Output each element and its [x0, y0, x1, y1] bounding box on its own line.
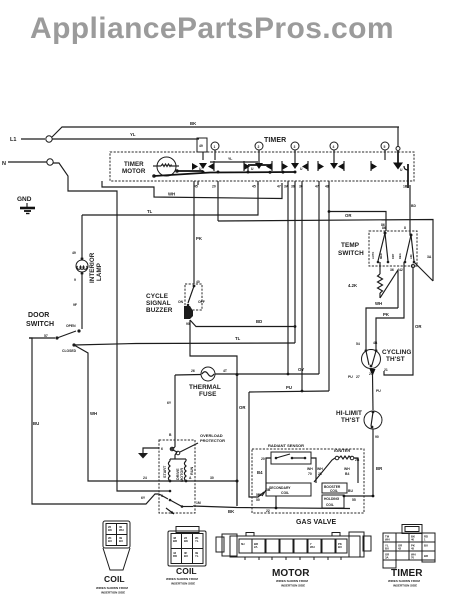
- timer contact cluster E: [371, 161, 408, 188]
- node L1: [10, 136, 52, 143]
- start winding: [163, 459, 186, 481]
- svg-text:AppliancePartsPros.com: AppliancePartsPros.com: [30, 12, 394, 45]
- svg-text:SWITCH: SWITCH: [26, 321, 54, 328]
- svg-text:COIL: COIL: [176, 566, 197, 576]
- under-timer stub 48: [325, 181, 329, 391]
- under-timer stub 45b: [252, 181, 258, 189]
- svg-text:A: A: [189, 476, 192, 480]
- svg-text:WIRES SHOWN FROM: WIRES SHOWN FROM: [166, 577, 198, 581]
- svg-text:INSERTION SIDE: INSERTION SIDE: [393, 584, 417, 588]
- svg-text:SWITCH: SWITCH: [338, 250, 364, 257]
- svg-text:OR: OR: [239, 405, 246, 410]
- svg-text:WIRES SHOWN FROM: WIRES SHOWN FROM: [276, 579, 308, 583]
- wire PK to buzzer: [194, 181, 203, 284]
- timer contact cluster A: [192, 161, 220, 174]
- thermal fuse: [175, 367, 319, 381]
- svg-text:50: 50: [256, 498, 260, 502]
- svg-text:B4: B4: [345, 472, 349, 476]
- wire WH from timer motor: [102, 181, 282, 199]
- svg-text:B4: B4: [257, 470, 263, 475]
- igniter: [314, 456, 360, 483]
- svg-text:3A: 3A: [427, 255, 432, 259]
- connector coil 1: [96, 521, 130, 595]
- svg-text:INSERTION SIDE: INSERTION SIDE: [171, 582, 195, 586]
- wire OR upper: [218, 213, 433, 281]
- svg-text:COIL: COIL: [281, 491, 289, 495]
- svg-text:56: 56: [256, 493, 260, 497]
- svg-text:6H: 6H: [241, 542, 245, 546]
- under-timer stub 47b: [315, 181, 319, 374]
- svg-text:4T: 4T: [223, 369, 228, 373]
- svg-text:CYCLE: CYCLE: [146, 293, 169, 300]
- svg-text:WH: WH: [385, 538, 390, 542]
- svg-text:5: 5: [384, 145, 386, 149]
- svg-text:48: 48: [325, 185, 329, 189]
- svg-text:TH'ST: TH'ST: [341, 417, 360, 424]
- timer cam 4: [330, 142, 338, 150]
- svg-text:U: U: [300, 167, 303, 171]
- svg-text:START: START: [163, 465, 167, 478]
- timer terminal 49 bump: [197, 138, 207, 152]
- secondary coil: [256, 483, 311, 502]
- svg-text:BU: BU: [338, 545, 342, 549]
- svg-text:WH: WH: [168, 192, 175, 197]
- svg-text:MOTOR: MOTOR: [180, 468, 184, 482]
- svg-text:ON: ON: [178, 300, 184, 304]
- cycling thermostat: [348, 341, 388, 410]
- timer motor: [152, 157, 179, 178]
- svg-text:8: 8: [404, 226, 406, 230]
- svg-text:COIL: COIL: [326, 503, 334, 507]
- svg-text:49: 49: [72, 251, 76, 255]
- run winding: [184, 459, 194, 481]
- svg-text:PK: PK: [196, 236, 203, 241]
- svg-text:WH: WH: [119, 528, 124, 532]
- ground at motor: [138, 447, 163, 459]
- temp switch contacts: [371, 226, 415, 263]
- motor assembly box: [159, 440, 195, 513]
- under-timer stub 45: [194, 181, 198, 189]
- centrifugal switch: [159, 490, 201, 514]
- svg-text:42: 42: [398, 547, 402, 551]
- svg-text:BU: BU: [385, 547, 389, 551]
- wire BD from buzzer: [190, 319, 295, 327]
- svg-text:WH: WH: [375, 301, 382, 306]
- svg-text:WH: WH: [344, 467, 350, 471]
- svg-text:BU: BU: [348, 489, 353, 493]
- under-timer stub 20: [212, 181, 218, 221]
- svg-text:1B: 1B: [403, 185, 408, 189]
- connector coil 2: [166, 527, 206, 586]
- wire WH temp: [366, 301, 398, 349]
- wire 3A diagonal: [414, 255, 433, 281]
- svg-text:55: 55: [352, 498, 356, 502]
- svg-text:BU: BU: [33, 421, 39, 426]
- timer cam 2: [255, 142, 263, 150]
- svg-text:20: 20: [261, 457, 265, 461]
- wire buzzer to OR vertical: [190, 320, 246, 506]
- svg-text:U: U: [251, 167, 254, 171]
- svg-text:30: 30: [210, 476, 214, 480]
- svg-text:9F: 9F: [73, 303, 77, 307]
- svg-text:OR: OR: [345, 213, 352, 218]
- wire 30 from motor: [195, 476, 237, 506]
- svg-text:OFF: OFF: [198, 300, 205, 304]
- svg-text:47: 47: [277, 185, 281, 189]
- svg-text:YL: YL: [130, 132, 136, 137]
- wire BU from door switch common: [29, 338, 159, 504]
- under-timer stub 4B: [403, 185, 416, 236]
- wire TL long: [82, 183, 258, 215]
- svg-text:BU: BU: [424, 544, 428, 548]
- ground GND: [17, 196, 35, 214]
- hi-limit thermostat: [364, 411, 383, 495]
- svg-text:70: 70: [308, 472, 312, 476]
- svg-text:L1: L1: [10, 137, 16, 143]
- svg-text:CYCLING: CYCLING: [382, 349, 411, 356]
- svg-text:AIR: AIR: [409, 254, 413, 259]
- svg-text:GND: GND: [17, 196, 32, 203]
- svg-text:YL: YL: [228, 157, 232, 161]
- timer contact cluster B: [244, 161, 272, 174]
- wire BK top: [52, 121, 400, 151]
- svg-text:20: 20: [212, 185, 216, 189]
- svg-text:WH: WH: [90, 411, 97, 416]
- wire from door switch closed: [74, 345, 159, 481]
- svg-text:INSERTION SIDE: INSERTION SIDE: [101, 591, 125, 595]
- wire to cycling 21: [384, 264, 422, 375]
- svg-text:PU: PU: [286, 385, 292, 390]
- svg-text:9: 9: [74, 278, 76, 282]
- svg-text:DRY: DRY: [391, 253, 395, 259]
- svg-text:WH: WH: [307, 467, 313, 471]
- svg-text:SIGNAL: SIGNAL: [146, 300, 171, 307]
- svg-text:26: 26: [191, 369, 195, 373]
- svg-text:REG: REG: [398, 253, 402, 259]
- svg-text:TIMER: TIMER: [264, 137, 286, 144]
- svg-text:BUZZER: BUZZER: [146, 307, 173, 314]
- svg-text:36: 36: [390, 268, 394, 272]
- svg-text:6Y: 6Y: [167, 401, 172, 405]
- wire PU: [249, 385, 329, 497]
- connector timer: [383, 525, 435, 588]
- svg-text:COIL: COIL: [330, 489, 338, 493]
- svg-text:MOTOR: MOTOR: [272, 568, 310, 579]
- svg-text:24: 24: [143, 476, 147, 480]
- svg-text:TIMER: TIMER: [124, 161, 144, 168]
- svg-text:U: U: [400, 168, 403, 172]
- under-timer stub 47: [277, 185, 281, 189]
- svg-text:THERMAL: THERMAL: [189, 384, 221, 391]
- svg-text:MOTOR: MOTOR: [122, 168, 146, 175]
- svg-text:BU: BU: [184, 554, 188, 558]
- svg-text:N: N: [2, 161, 6, 167]
- svg-text:47: 47: [315, 185, 319, 189]
- svg-text:WIRES SHOWN FROM: WIRES SHOWN FROM: [96, 586, 128, 590]
- svg-text:22: 22: [266, 509, 270, 513]
- svg-text:PU: PU: [348, 375, 353, 379]
- svg-text:AUTO: AUTO: [371, 252, 375, 259]
- timer cam 1: [211, 142, 219, 150]
- svg-text:GAS VALVE: GAS VALVE: [296, 519, 337, 526]
- svg-text:BD: BD: [411, 204, 416, 208]
- svg-text:4: 4: [333, 145, 335, 149]
- svg-text:TIMER: TIMER: [391, 568, 423, 579]
- svg-text:BR: BR: [424, 554, 428, 558]
- svg-text:6Y: 6Y: [141, 496, 146, 500]
- under-timer stub 3A: [284, 181, 289, 375]
- overload protector: [169, 433, 198, 459]
- timer contact cluster C: [282, 161, 308, 174]
- temp switch box: [369, 231, 417, 266]
- svg-text:42: 42: [399, 268, 403, 272]
- node N: [2, 159, 53, 167]
- svg-text:PK: PK: [383, 312, 390, 317]
- timer contact cluster D: [318, 161, 344, 171]
- svg-text:90: 90: [375, 435, 379, 439]
- svg-text:INSERTION SIDE: INSERTION SIDE: [281, 584, 305, 588]
- svg-text:3: 3: [294, 145, 296, 149]
- svg-text:45: 45: [411, 547, 415, 551]
- door switch: [29, 324, 81, 353]
- timer internal wires: [154, 150, 398, 176]
- wire PK temp: [376, 262, 404, 349]
- timer cam 3: [291, 142, 299, 150]
- wire to temp switch 86: [328, 210, 386, 231]
- cycle signal buzzer: [178, 284, 205, 326]
- svg-text:BU: BU: [119, 539, 123, 543]
- wire sensor left: [257, 458, 271, 496]
- svg-text:TEMP: TEMP: [341, 242, 360, 249]
- motor internal node: [159, 476, 195, 482]
- svg-text:BU: BU: [108, 539, 112, 543]
- svg-text:70: 70: [411, 556, 415, 560]
- svg-text:COIL: COIL: [104, 574, 125, 584]
- svg-text:86: 86: [382, 226, 386, 230]
- svg-text:YL: YL: [195, 539, 199, 543]
- svg-text:WIRES SHOWN FROM: WIRES SHOWN FROM: [388, 579, 420, 583]
- svg-text:TH'ST: TH'ST: [386, 356, 405, 363]
- under-timer stub 30: [299, 181, 303, 392]
- svg-text:36: 36: [291, 185, 295, 189]
- svg-text:30: 30: [299, 185, 303, 189]
- svg-text:2A: 2A: [254, 545, 258, 549]
- svg-text:OY: OY: [298, 367, 304, 372]
- svg-text:2: 2: [258, 145, 260, 149]
- svg-text:BK: BK: [190, 121, 197, 126]
- svg-text:MED: MED: [379, 253, 383, 259]
- svg-text:TL: TL: [235, 336, 241, 341]
- svg-text:BK: BK: [108, 528, 112, 532]
- gas valve bottom wires: [266, 496, 277, 513]
- svg-text:90: 90: [186, 322, 190, 326]
- svg-text:PU: PU: [376, 389, 381, 393]
- svg-text:WH: WH: [317, 467, 323, 471]
- svg-text:57: 57: [44, 334, 48, 338]
- wire TL lower: [74, 336, 295, 345]
- svg-text:RUN: RUN: [190, 467, 194, 475]
- svg-text:DOOR: DOOR: [28, 312, 49, 319]
- svg-text:40: 40: [196, 280, 200, 284]
- svg-text:BK: BK: [228, 509, 235, 514]
- booster coil: [322, 483, 353, 493]
- radiant sensor: [261, 452, 311, 464]
- timer cam 5: [381, 142, 389, 150]
- svg-text:BD: BD: [256, 319, 262, 324]
- svg-text:1: 1: [214, 145, 216, 149]
- svg-text:SECONDARY: SECONDARY: [269, 486, 291, 490]
- svg-text:27: 27: [356, 375, 360, 379]
- svg-text:PROTECTOR: PROTECTOR: [200, 438, 225, 443]
- wire sensor right WH: [307, 458, 323, 483]
- wire N white: [53, 163, 159, 491]
- connector motor: [216, 532, 371, 588]
- under-timer stub 36: [291, 181, 296, 343]
- svg-text:FUSE: FUSE: [199, 391, 217, 398]
- interior lamp: [72, 215, 88, 329]
- svg-text:BR: BR: [173, 539, 177, 543]
- svg-text:45: 45: [194, 185, 198, 189]
- svg-text:BR: BR: [376, 466, 383, 471]
- svg-text:1M: 1M: [196, 501, 201, 505]
- svg-text:CLOSED: CLOSED: [62, 349, 77, 353]
- svg-text:LAMP: LAMP: [96, 263, 103, 281]
- wire 6Y to motor: [167, 375, 175, 447]
- gas valve dashed box: [252, 449, 364, 513]
- timer box: [110, 152, 414, 181]
- svg-text:45: 45: [252, 185, 256, 189]
- wire YL: [52, 132, 199, 139]
- resistor 4.2K: [348, 262, 403, 308]
- svg-text:BK: BK: [184, 539, 188, 543]
- holding coil: [322, 495, 374, 508]
- svg-text:HOLDING: HOLDING: [324, 497, 340, 501]
- wire BK bottom bus: [193, 506, 350, 514]
- svg-text:OPEN: OPEN: [66, 324, 76, 328]
- svg-text:3A: 3A: [385, 556, 389, 560]
- svg-text:INTERIOR: INTERIOR: [89, 252, 96, 283]
- svg-text:OR: OR: [415, 324, 422, 329]
- svg-text:49: 49: [199, 144, 203, 148]
- svg-text:RD: RD: [173, 554, 177, 558]
- svg-text:3A: 3A: [284, 185, 289, 189]
- svg-text:4.2K: 4.2K: [348, 283, 358, 288]
- svg-text:4B: 4B: [373, 341, 378, 345]
- svg-text:YL: YL: [195, 554, 199, 558]
- svg-text:6: 6: [161, 447, 163, 451]
- svg-text:WH: WH: [310, 545, 315, 549]
- svg-text:54: 54: [356, 342, 360, 346]
- svg-text:HI-LIMIT: HI-LIMIT: [336, 410, 362, 417]
- svg-text:B: B: [169, 433, 172, 437]
- svg-text:21: 21: [384, 368, 388, 372]
- svg-text:TL: TL: [147, 209, 153, 214]
- svg-text:RADIANT SENSOR: RADIANT SENSOR: [268, 443, 304, 448]
- svg-text:40: 40: [411, 538, 415, 542]
